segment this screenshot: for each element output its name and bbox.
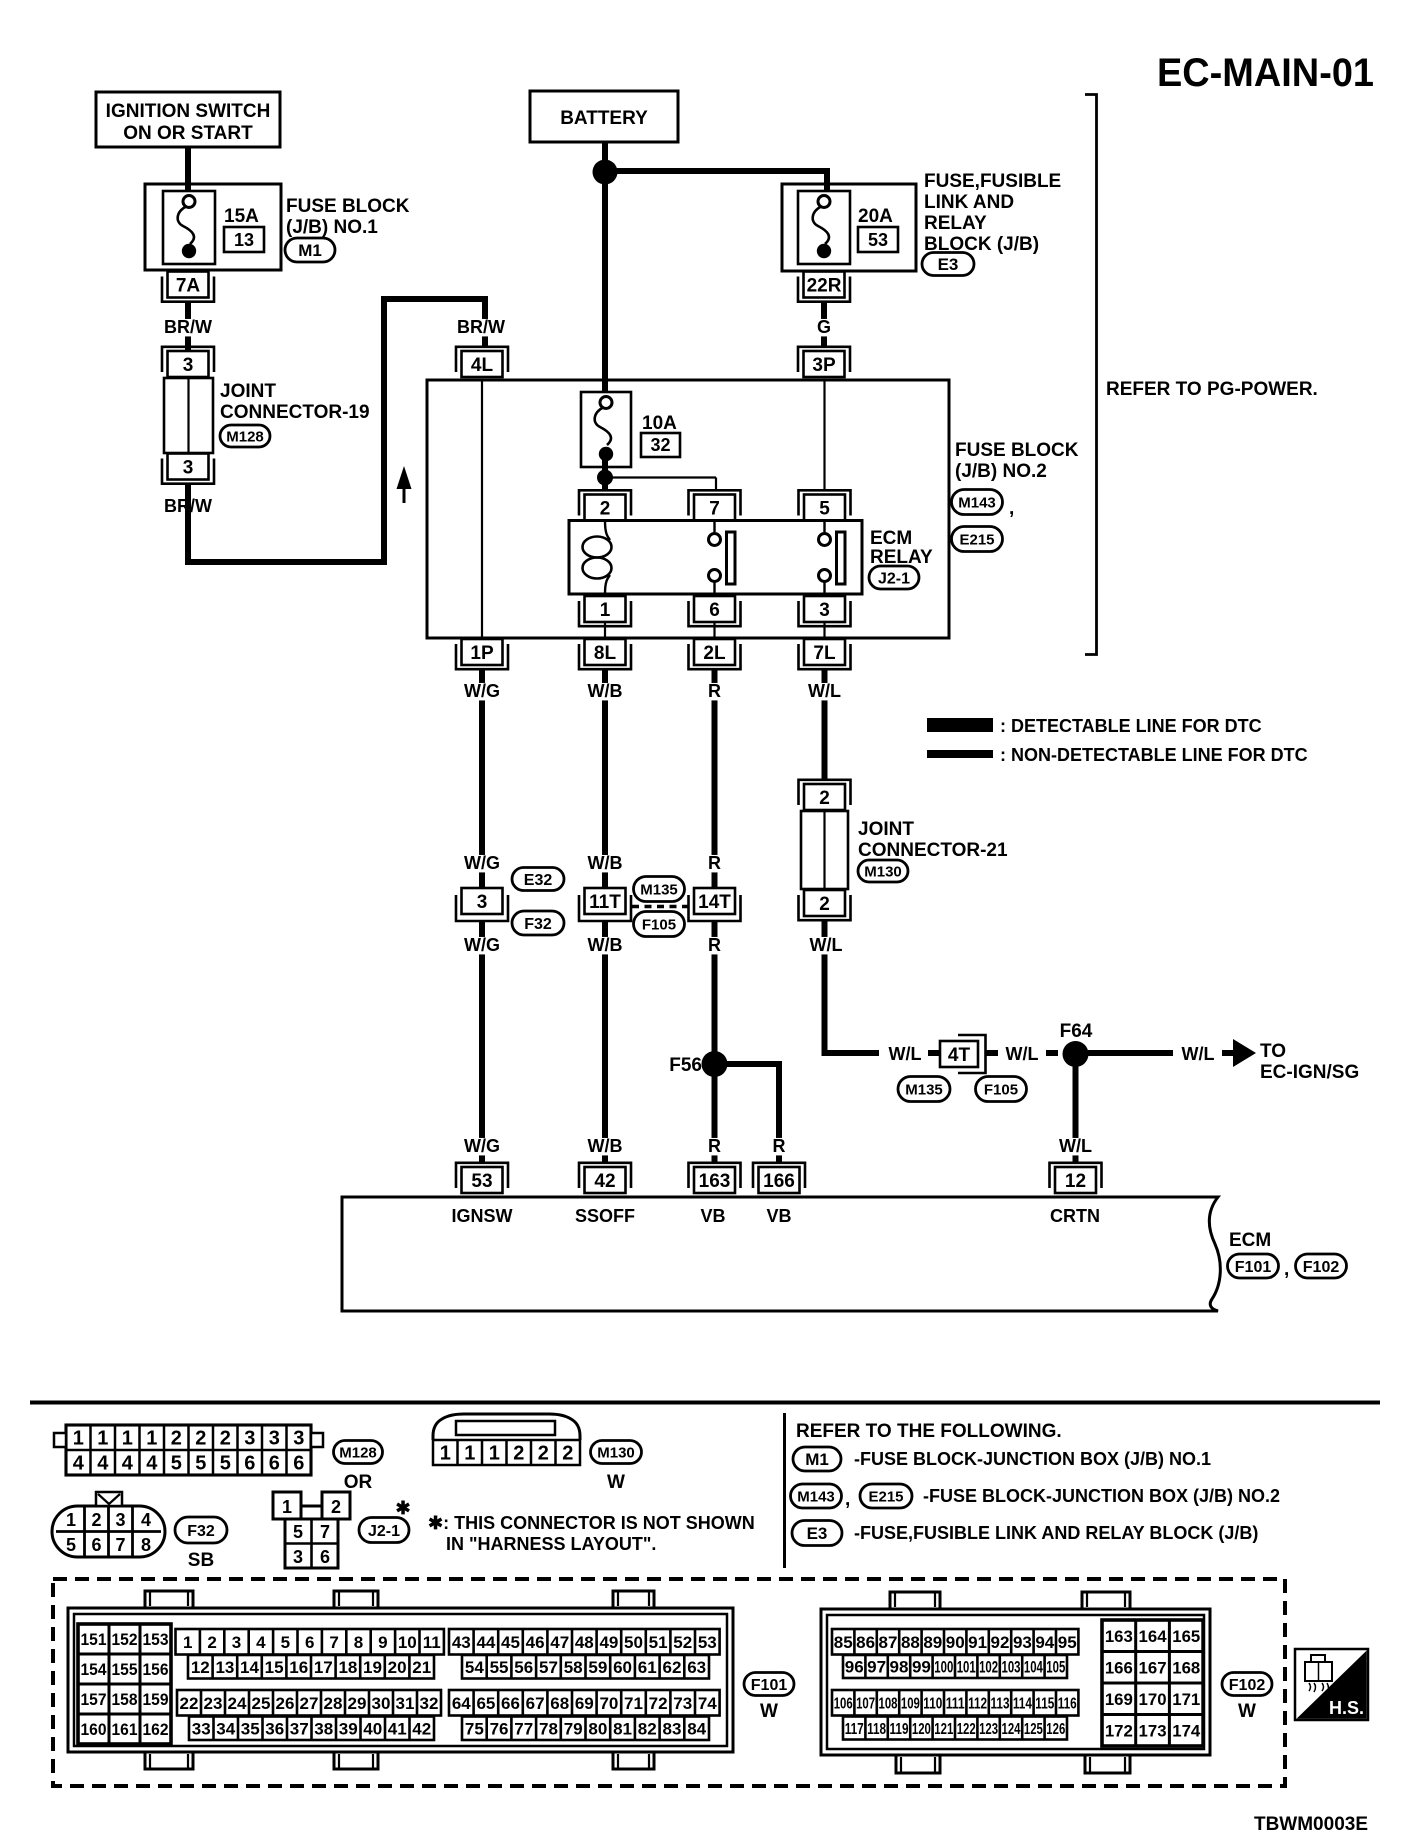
ECM terminal 42 [579, 1163, 631, 1193]
svg-text:J2-1: J2-1 [878, 570, 910, 587]
wire label W/G below connector 3 [464, 935, 500, 955]
color label W F102 [1238, 1701, 1256, 1722]
svg-text:-FUSE,FUSIBLE LINK AND RELAY B: -FUSE,FUSIBLE LINK AND RELAY BLOCK (J/B) [854, 1523, 1258, 1543]
connector ref F105 [634, 912, 685, 937]
fuse block J/B no.1 box [145, 184, 281, 270]
svg-text:159: 159 [143, 1690, 169, 1709]
connector 11T [579, 888, 631, 921]
ECM terminal 163 [689, 1163, 741, 1193]
svg-text:116: 116 [1058, 1696, 1077, 1713]
svg-text:W/L: W/L [810, 935, 843, 955]
svg-text:2: 2 [171, 1428, 182, 1450]
wire label W/B below 11T [588, 935, 623, 955]
fuse number box 13 [224, 227, 264, 252]
F102 pin row 85-95 [832, 1629, 1078, 1655]
wire connector 3 to ECM terminal 53 [479, 921, 485, 1163]
svg-text:7: 7 [115, 1535, 125, 1555]
svg-text:58: 58 [564, 1658, 583, 1677]
label F64 [1060, 1021, 1093, 1042]
svg-text:ON OR START: ON OR START [123, 123, 253, 144]
svg-text:152: 152 [112, 1630, 138, 1649]
svg-text:TBWM0003E: TBWM0003E [1254, 1814, 1368, 1835]
relay pin 2 [579, 490, 631, 520]
svg-text:157: 157 [81, 1690, 107, 1709]
svg-text:5: 5 [819, 498, 830, 519]
svg-text:VB: VB [700, 1206, 725, 1226]
svg-text:77: 77 [514, 1719, 533, 1738]
svg-text:6: 6 [269, 1453, 280, 1475]
svg-text:EC-MAIN-01: EC-MAIN-01 [1157, 51, 1374, 95]
svg-text:71: 71 [624, 1694, 643, 1713]
svg-text:104: 104 [1024, 1658, 1043, 1677]
fuse block J/B no.2 box [427, 380, 949, 638]
svg-text:,: , [1009, 498, 1014, 519]
svg-text:56: 56 [514, 1658, 533, 1677]
svg-text:70: 70 [599, 1694, 618, 1713]
svg-text:EC-IGN/SG: EC-IGN/SG [1260, 1062, 1359, 1083]
svg-text:R: R [708, 935, 721, 955]
connector drawing M128 [66, 1425, 311, 1475]
arrow to EC-IGN/SG [1222, 1039, 1256, 1067]
svg-text:12: 12 [191, 1658, 210, 1677]
svg-text:63: 63 [687, 1658, 706, 1677]
connector 7L [799, 639, 851, 669]
svg-text:2: 2 [331, 1497, 341, 1517]
F101 pin row 1-11 [176, 1629, 444, 1655]
svg-text:E32: E32 [524, 872, 553, 889]
svg-text:E215: E215 [959, 531, 994, 548]
fuse 15A symbol [163, 191, 215, 264]
F101 pin row 22-32 [177, 1690, 441, 1716]
info M1 text [854, 1449, 1211, 1469]
svg-text:125: 125 [1024, 1721, 1043, 1738]
F102 pin grid 163-174 [1102, 1620, 1203, 1746]
svg-text:52: 52 [673, 1633, 692, 1652]
svg-text:15: 15 [265, 1658, 284, 1677]
label 15A [224, 206, 259, 227]
legend detectable line [927, 716, 1262, 736]
svg-text:78: 78 [539, 1719, 558, 1738]
svg-text:171: 171 [1172, 1690, 1200, 1709]
label REFER TO THE FOLLOWING. [796, 1421, 1062, 1442]
svg-text:30: 30 [372, 1694, 391, 1713]
connector 3 (E32/F32) [456, 888, 508, 921]
svg-text:156: 156 [143, 1660, 169, 1679]
svg-text:M130: M130 [597, 1444, 635, 1461]
svg-text:6: 6 [320, 1547, 330, 1567]
wire 11T to ECM terminal 42 [602, 921, 608, 1163]
svg-text:75: 75 [465, 1719, 484, 1738]
svg-text:SB: SB [188, 1550, 214, 1571]
svg-text:15A: 15A [224, 206, 259, 227]
connector ref E215 [952, 527, 1003, 552]
svg-text:5: 5 [220, 1453, 231, 1475]
info panel divider [783, 1413, 786, 1568]
svg-text:2: 2 [819, 788, 830, 809]
joint connector-19 terminal 3 bottom [162, 454, 214, 484]
title EC-MAIN-01 [1157, 51, 1374, 95]
svg-text:8L: 8L [594, 643, 617, 664]
svg-text:166: 166 [763, 1171, 795, 1192]
svg-text:1: 1 [66, 1510, 76, 1530]
label ECM [1229, 1230, 1271, 1251]
F101 pin grid 151-162 [78, 1624, 171, 1744]
label 10A [642, 413, 677, 434]
svg-text:60: 60 [613, 1658, 632, 1677]
svg-text:61: 61 [638, 1658, 657, 1677]
svg-text:F102: F102 [1229, 1677, 1266, 1694]
up arrow [397, 466, 412, 503]
svg-text:120: 120 [912, 1721, 931, 1738]
svg-text:FUSE BLOCK: FUSE BLOCK [955, 440, 1079, 461]
svg-text:2: 2 [538, 1443, 549, 1465]
connector 8L [579, 639, 631, 669]
svg-text:W/L: W/L [1182, 1044, 1215, 1064]
svg-text:: NON-DETECTABLE LINE FOR DTC: : NON-DETECTABLE LINE FOR DTC [1000, 745, 1308, 765]
svg-text:2: 2 [91, 1510, 101, 1530]
ECM relay box [569, 521, 862, 595]
svg-text:96: 96 [845, 1658, 864, 1677]
F101 pin row 54-63 [462, 1655, 709, 1679]
svg-text:85: 85 [834, 1633, 853, 1652]
connector ref E3 [922, 253, 974, 276]
svg-text:111: 111 [946, 1696, 965, 1713]
wire branch F56 to ECM terminal 166 [715, 1064, 780, 1163]
svg-text:37: 37 [290, 1719, 309, 1738]
svg-text:114: 114 [1013, 1696, 1032, 1713]
svg-text:8: 8 [354, 1633, 363, 1652]
svg-text:1: 1 [489, 1443, 500, 1465]
wire stub after 4T [986, 1050, 999, 1056]
svg-text:,: , [1284, 1259, 1289, 1280]
wire label BR/W [164, 317, 212, 337]
svg-text:F64: F64 [1060, 1021, 1093, 1042]
svg-text:M135: M135 [640, 881, 678, 898]
svg-text:2: 2 [195, 1428, 206, 1450]
svg-text:88: 88 [901, 1633, 920, 1652]
svg-text:CONNECTOR-19: CONNECTOR-19 [220, 402, 370, 423]
svg-text:IN "HARNESS LAYOUT".: IN "HARNESS LAYOUT". [446, 1534, 656, 1554]
fuse 10A symbol [581, 392, 631, 467]
svg-text:45: 45 [501, 1633, 520, 1652]
svg-text:3: 3 [183, 457, 194, 478]
wire 2L to 14T [712, 670, 718, 888]
svg-text:6: 6 [305, 1633, 314, 1652]
svg-text:7: 7 [320, 1522, 330, 1542]
connector ref E3 info [792, 1521, 842, 1546]
connector ref J2-1 label [359, 1518, 409, 1543]
svg-text:29: 29 [348, 1694, 367, 1713]
svg-text:F101: F101 [1235, 1259, 1272, 1276]
svg-text:M135: M135 [905, 1081, 943, 1098]
label JOINT CONNECTOR-19 [220, 381, 370, 423]
connector ref F105 below 4T [976, 1077, 1027, 1102]
svg-text:1: 1 [73, 1428, 84, 1450]
svg-text:F32: F32 [187, 1523, 215, 1540]
svg-text:3P: 3P [812, 355, 836, 376]
junction node F56 [702, 1051, 728, 1077]
svg-text:69: 69 [575, 1694, 594, 1713]
dashed link 11T to 14T [632, 905, 688, 909]
fuse 20A symbol [798, 191, 850, 264]
svg-text:W/G: W/G [464, 681, 500, 701]
svg-text:62: 62 [662, 1658, 681, 1677]
wire 10A fuse to relay pin 2 [602, 460, 608, 490]
svg-text:1: 1 [183, 1633, 192, 1652]
svg-text:44: 44 [476, 1633, 495, 1652]
svg-text:5: 5 [66, 1535, 76, 1555]
svg-text:21: 21 [412, 1658, 431, 1677]
wire label W/L after 4T [1006, 1044, 1039, 1064]
svg-text:163: 163 [699, 1171, 731, 1192]
svg-text:53: 53 [698, 1633, 717, 1652]
comma after M143 ref [1009, 498, 1014, 519]
svg-text:28: 28 [324, 1694, 343, 1713]
svg-text:9: 9 [378, 1633, 387, 1652]
svg-text:160: 160 [81, 1720, 107, 1739]
svg-text:105: 105 [1046, 1658, 1065, 1677]
wire joint connector-19 to 4L [188, 299, 485, 562]
label REFER TO PG-POWER. [1106, 379, 1318, 400]
svg-text:82: 82 [638, 1719, 657, 1738]
svg-text:16: 16 [289, 1658, 308, 1677]
svg-text:112: 112 [968, 1696, 987, 1713]
fuse number box 53 [858, 227, 898, 252]
F101 pin row 33-42 [189, 1717, 434, 1741]
svg-text:M1: M1 [805, 1450, 829, 1469]
svg-text:17: 17 [314, 1658, 333, 1677]
svg-text:53: 53 [868, 230, 888, 250]
svg-text:81: 81 [613, 1719, 632, 1738]
svg-text:47: 47 [550, 1633, 569, 1652]
wire pin 1 to 8L [604, 622, 606, 638]
svg-text:90: 90 [946, 1633, 965, 1652]
connector ref F101 label [744, 1673, 794, 1696]
svg-text:IGNSW: IGNSW [452, 1206, 513, 1226]
wire 7L to joint connector-21 [822, 670, 828, 780]
svg-text:W/B: W/B [588, 681, 623, 701]
svg-text:22R: 22R [807, 275, 842, 296]
wire label R [708, 681, 721, 701]
svg-text:E215: E215 [868, 1488, 903, 1505]
junction node F64 [1063, 1041, 1089, 1067]
svg-text:51: 51 [649, 1633, 668, 1652]
svg-text:W/B: W/B [588, 853, 623, 873]
svg-text:OR: OR [344, 1472, 373, 1493]
wire label BR/W below joint connector-19 [164, 496, 212, 516]
svg-text:2: 2 [819, 894, 830, 915]
ECM terminal 166 [753, 1163, 805, 1193]
relay pin 3 [799, 596, 851, 626]
svg-text:164: 164 [1139, 1627, 1168, 1646]
svg-text:53: 53 [471, 1171, 492, 1192]
svg-text:14T: 14T [698, 892, 731, 913]
svg-text:97: 97 [867, 1658, 886, 1677]
svg-text:W/L: W/L [889, 1044, 922, 1064]
connector ref M1 info [793, 1447, 841, 1471]
svg-text:3: 3 [115, 1510, 125, 1530]
svg-text:172: 172 [1105, 1721, 1133, 1740]
svg-text:2: 2 [600, 498, 611, 519]
wire label W/B above 11T [588, 853, 623, 873]
svg-text:W/G: W/G [464, 1136, 500, 1156]
wire 3P to relay pin 5 [823, 380, 825, 490]
svg-text:✱: ✱ [395, 1498, 410, 1518]
ECM connector F101 housing [68, 1608, 733, 1752]
svg-text:101: 101 [957, 1658, 976, 1677]
connector 7A [162, 272, 214, 302]
svg-text:158: 158 [112, 1690, 138, 1709]
svg-text:67: 67 [526, 1694, 545, 1713]
svg-text:REFER TO PG-POWER.: REFER TO PG-POWER. [1106, 379, 1318, 400]
connector 14T [689, 888, 741, 921]
battery label [560, 108, 648, 129]
connector ref F32 [512, 911, 564, 935]
svg-text:1: 1 [600, 600, 611, 621]
svg-text:34: 34 [216, 1719, 235, 1738]
svg-text:42: 42 [412, 1719, 431, 1738]
svg-text:SSOFF: SSOFF [575, 1206, 635, 1226]
wire label W/L below joint connector-21 [810, 935, 843, 955]
svg-text:-FUSE BLOCK-JUNCTION BOX (J/B): -FUSE BLOCK-JUNCTION BOX (J/B) NO.1 [854, 1449, 1211, 1469]
svg-text:5: 5 [195, 1453, 206, 1475]
connector ref M135 [634, 877, 685, 902]
drawing number TBWM0003E [1254, 1814, 1368, 1835]
comma between F101 F102 [1284, 1259, 1289, 1280]
svg-text:65: 65 [476, 1694, 495, 1713]
svg-text:31: 31 [396, 1694, 415, 1713]
F101 pin row 64-74 [449, 1690, 720, 1716]
connector ref M135 below 4T [898, 1077, 950, 1102]
connector 2L [689, 639, 741, 669]
svg-text:F105: F105 [642, 916, 676, 933]
svg-text:LINK AND: LINK AND [924, 192, 1014, 213]
svg-text:155: 155 [112, 1660, 138, 1679]
relay pin 1 [579, 596, 631, 626]
svg-text:W: W [607, 1472, 625, 1493]
connector ref M128 [220, 425, 270, 447]
svg-text:M128: M128 [226, 428, 264, 445]
svg-text:108: 108 [879, 1696, 898, 1713]
svg-text:41: 41 [388, 1719, 407, 1738]
svg-text:106: 106 [834, 1696, 853, 1713]
svg-text:M143: M143 [797, 1488, 835, 1505]
svg-text:4: 4 [122, 1453, 134, 1475]
svg-text:91: 91 [968, 1633, 987, 1652]
svg-text:95: 95 [1058, 1633, 1077, 1652]
svg-text:TO: TO [1260, 1041, 1286, 1062]
joint connector-21 terminal 2 bottom [799, 890, 851, 920]
battery box [530, 91, 678, 142]
svg-text:89: 89 [923, 1633, 942, 1652]
svg-text:6: 6 [244, 1453, 255, 1475]
svg-text:83: 83 [662, 1719, 681, 1738]
svg-text:7A: 7A [176, 275, 201, 296]
connector ref M143 [952, 490, 1003, 515]
harness layout dashed box [53, 1579, 1285, 1786]
wire F64 to arrow [1088, 1050, 1173, 1056]
connector 4T [940, 1035, 986, 1073]
svg-text:13: 13 [234, 230, 254, 250]
svg-text:J2-1: J2-1 [368, 1523, 400, 1540]
svg-text:4: 4 [141, 1510, 151, 1530]
fuse number box 32 [641, 433, 680, 457]
svg-text:E3: E3 [807, 1524, 828, 1543]
svg-text:25: 25 [252, 1694, 271, 1713]
wire label R below 14T [708, 935, 721, 955]
svg-text:ECM: ECM [1229, 1230, 1271, 1251]
svg-text:151: 151 [81, 1630, 107, 1649]
svg-text:94: 94 [1035, 1633, 1054, 1652]
wire label W/L before arrow [1182, 1044, 1215, 1064]
wire label W/L [808, 681, 841, 701]
ignition switch box [96, 92, 280, 147]
svg-text:3: 3 [819, 600, 830, 621]
svg-text:IGNITION SWITCH: IGNITION SWITCH [106, 101, 271, 122]
svg-text:F32: F32 [524, 916, 552, 933]
svg-text:168: 168 [1172, 1658, 1200, 1677]
svg-text:11T: 11T [589, 892, 621, 913]
wire stub to 4T [928, 1050, 941, 1056]
svg-text:F56: F56 [669, 1055, 702, 1076]
svg-text:153: 153 [143, 1630, 169, 1649]
connector drawing M130 [433, 1414, 580, 1440]
svg-text:93: 93 [1013, 1633, 1032, 1652]
svg-text:3: 3 [293, 1547, 303, 1567]
svg-text:7L: 7L [813, 643, 836, 664]
svg-text:REFER TO THE FOLLOWING.: REFER TO THE FOLLOWING. [796, 1421, 1062, 1442]
svg-text:117: 117 [845, 1721, 864, 1738]
connector ref M128 label [334, 1441, 383, 1464]
svg-text:4: 4 [256, 1633, 266, 1652]
svg-text:W/L: W/L [1006, 1044, 1039, 1064]
svg-text:F102: F102 [1303, 1259, 1340, 1276]
svg-text:(J/B) NO.1: (J/B) NO.1 [286, 217, 378, 238]
wire stub before F64 [1046, 1050, 1058, 1056]
svg-text:4: 4 [146, 1453, 158, 1475]
svg-text:103: 103 [1002, 1658, 1021, 1677]
ECM pin name CRTN [1050, 1206, 1100, 1226]
fuse fusible link and relay block box [782, 184, 916, 271]
svg-text:M1: M1 [298, 241, 322, 260]
svg-text:10: 10 [398, 1633, 417, 1652]
svg-text:18: 18 [338, 1658, 357, 1677]
svg-text:R: R [773, 1136, 786, 1156]
svg-text:F101: F101 [751, 1677, 788, 1694]
connector ref E215 info [860, 1484, 912, 1508]
svg-text:5: 5 [281, 1633, 290, 1652]
wire 8L to 11T [602, 670, 608, 888]
connector ref F102 [1296, 1254, 1347, 1278]
comma after M143 [845, 1489, 850, 1510]
F101 pin row 12-21 [188, 1655, 434, 1679]
svg-text:BATTERY: BATTERY [560, 108, 648, 129]
svg-text:35: 35 [241, 1719, 260, 1738]
svg-text:W/L: W/L [808, 681, 841, 701]
svg-text:86: 86 [856, 1633, 875, 1652]
legend non-detectable line [927, 745, 1308, 765]
svg-text:W/L: W/L [1059, 1136, 1092, 1156]
svg-text:124: 124 [1002, 1721, 1021, 1738]
svg-text:100: 100 [934, 1658, 953, 1677]
svg-text:R: R [708, 681, 721, 701]
F102 pin row 96-105 [843, 1655, 1067, 1678]
svg-text:R: R [708, 853, 721, 873]
svg-text:5: 5 [293, 1522, 303, 1542]
wire pin 3 to 7L [823, 622, 825, 638]
svg-text:3: 3 [293, 1428, 304, 1450]
svg-text:122: 122 [957, 1721, 976, 1738]
